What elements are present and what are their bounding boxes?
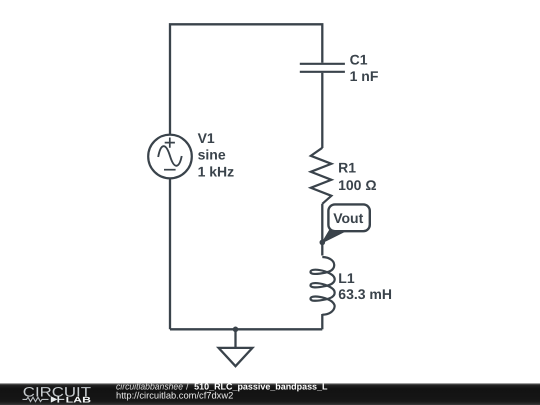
svg-text:1 kHz: 1 kHz <box>198 163 235 179</box>
CircuitLab logo resistor squiggle <box>23 397 49 401</box>
wire C1 to R1 <box>321 73 323 148</box>
wire node Vout to L1 <box>321 242 323 255</box>
svg-text:Vout: Vout <box>333 210 363 226</box>
svg-text:100 Ω: 100 Ω <box>338 177 376 193</box>
svg-text:R1: R1 <box>338 159 356 175</box>
voltage source V1 <box>148 135 192 179</box>
node ground junction dot <box>233 327 239 333</box>
Vout flag box <box>328 204 369 231</box>
wire L1 to bottom rail <box>321 314 323 329</box>
svg-text:http://circuitlab.com/cf7dxw2: http://circuitlab.com/cf7dxw2 <box>116 390 233 401</box>
node Vout junction dot <box>320 240 326 246</box>
svg-text:C1: C1 <box>350 51 368 67</box>
wire R1 to node Vout <box>321 204 323 243</box>
inductor L1 <box>310 257 334 315</box>
CircuitLab logo diode <box>51 396 65 402</box>
ground <box>219 329 253 366</box>
svg-text:V1: V1 <box>198 130 215 146</box>
Vout flag tail <box>322 231 346 243</box>
footer bar <box>0 383 540 405</box>
wire bottom rail <box>170 328 322 330</box>
resistor R1 <box>311 148 332 204</box>
svg-text:L1: L1 <box>338 270 355 286</box>
wire left bottom (V1- to bottom rail) <box>169 178 171 329</box>
svg-text:63.3 mH: 63.3 mH <box>338 286 392 302</box>
wire top (node from V1+ to C1 top) <box>170 24 322 134</box>
svg-text:sine: sine <box>198 147 226 163</box>
capacitor C1 <box>300 64 345 72</box>
svg-text:LAB: LAB <box>66 396 92 405</box>
svg-text:1 nF: 1 nF <box>350 68 379 84</box>
